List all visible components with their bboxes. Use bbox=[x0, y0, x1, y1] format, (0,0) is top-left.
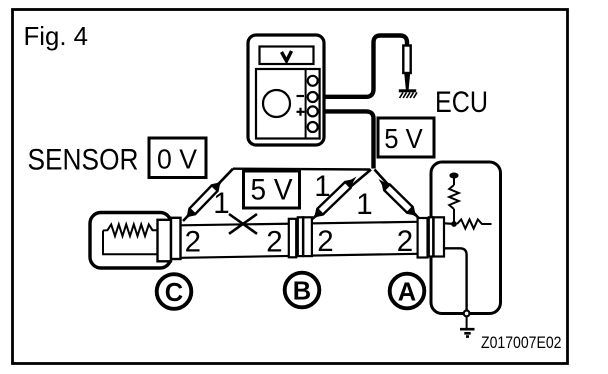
svg-text:5 V: 5 V bbox=[251, 173, 293, 206]
terminal probe at connector A pin1 bbox=[376, 176, 422, 221]
sensor internal resistor bbox=[103, 224, 159, 236]
wire from voltmeter negative jack to ground probe bbox=[314, 36, 407, 97]
plus polarity mark bbox=[297, 108, 305, 116]
svg-text:2: 2 bbox=[397, 225, 413, 258]
sensor body bbox=[90, 213, 171, 269]
svg-text:5 V: 5 V bbox=[384, 123, 423, 154]
body ground contact (hatched) bbox=[399, 89, 416, 92]
ECU pull-up resistor bbox=[449, 185, 459, 209]
connector B bbox=[289, 217, 312, 257]
voltmeter display window bbox=[260, 47, 314, 65]
connector A bbox=[418, 217, 444, 257]
connector name A bbox=[390, 274, 425, 309]
wire from connector A pin1 into ECU bbox=[440, 222, 452, 225]
svg-text:1: 1 bbox=[314, 170, 330, 203]
ECU series resistor bbox=[457, 219, 492, 228]
svg-text:1: 1 bbox=[213, 187, 229, 220]
svg-text:ECU: ECU bbox=[435, 86, 488, 119]
wire: diagonal from connector B pin1 to junction bbox=[311, 170, 371, 221]
voltmeter display V mark bbox=[282, 51, 292, 61]
svg-text:2: 2 bbox=[317, 225, 333, 258]
voltmeter dial bbox=[263, 90, 290, 117]
wire: pin1 harness top run bbox=[233, 167, 370, 170]
svg-text:Fig. 4: Fig. 4 bbox=[24, 21, 89, 51]
ECU ground symbol bbox=[460, 329, 475, 336]
ECU supply node dot bbox=[449, 173, 458, 179]
svg-text:A: A bbox=[398, 278, 416, 306]
wire: pin2 harness upper line bbox=[181, 222, 418, 226]
voltmeter jack 4 bbox=[308, 122, 318, 132]
wire from connector A pin2 to ECU ground bbox=[440, 248, 467, 310]
ECU junction node bbox=[451, 221, 457, 227]
harness 5V value box bbox=[244, 171, 300, 208]
svg-text:Z017007E02: Z017007E02 bbox=[481, 333, 562, 352]
ECU 5V value box bbox=[378, 118, 434, 157]
connector C bbox=[158, 218, 181, 261]
voltmeter front panel bbox=[256, 69, 320, 139]
connector name C bbox=[157, 274, 192, 309]
wire: diagonal from junction to connector A pin1 bbox=[375, 170, 420, 219]
connector name B bbox=[285, 273, 320, 308]
wire: diagonal from connector C pin1 bbox=[183, 169, 233, 221]
ECU case terminal bbox=[464, 311, 470, 317]
voltmeter jack 1 bbox=[308, 76, 318, 86]
sensor 0V value box bbox=[149, 138, 206, 178]
voltmeter jack 2 bbox=[308, 92, 318, 102]
voltmeter body bbox=[248, 35, 324, 145]
svg-text:0 V: 0 V bbox=[157, 144, 197, 175]
terminal probe at connector B pin1 bbox=[309, 174, 360, 223]
voltmeter jack 3 bbox=[308, 106, 318, 116]
svg-text:B: B bbox=[293, 277, 311, 305]
svg-text:SENSOR: SENSOR bbox=[28, 144, 139, 177]
sensor internal return wire bbox=[103, 231, 158, 255]
svg-text:2: 2 bbox=[185, 225, 201, 258]
voltmeter jack column divider bbox=[305, 69, 307, 139]
wire: pin2 harness lower line bbox=[181, 254, 418, 258]
svg-text:C: C bbox=[165, 279, 183, 307]
minus polarity mark bbox=[297, 95, 305, 97]
negative test probe bbox=[403, 46, 410, 74]
open-circuit X mark between C and B bbox=[229, 214, 257, 234]
terminal probe at connector C pin1 bbox=[181, 177, 226, 223]
wire from voltmeter positive jack down to 5V junction node bbox=[314, 111, 374, 168]
ECU box bbox=[431, 162, 501, 314]
svg-text:2: 2 bbox=[266, 226, 282, 259]
svg-text:1: 1 bbox=[356, 188, 372, 221]
